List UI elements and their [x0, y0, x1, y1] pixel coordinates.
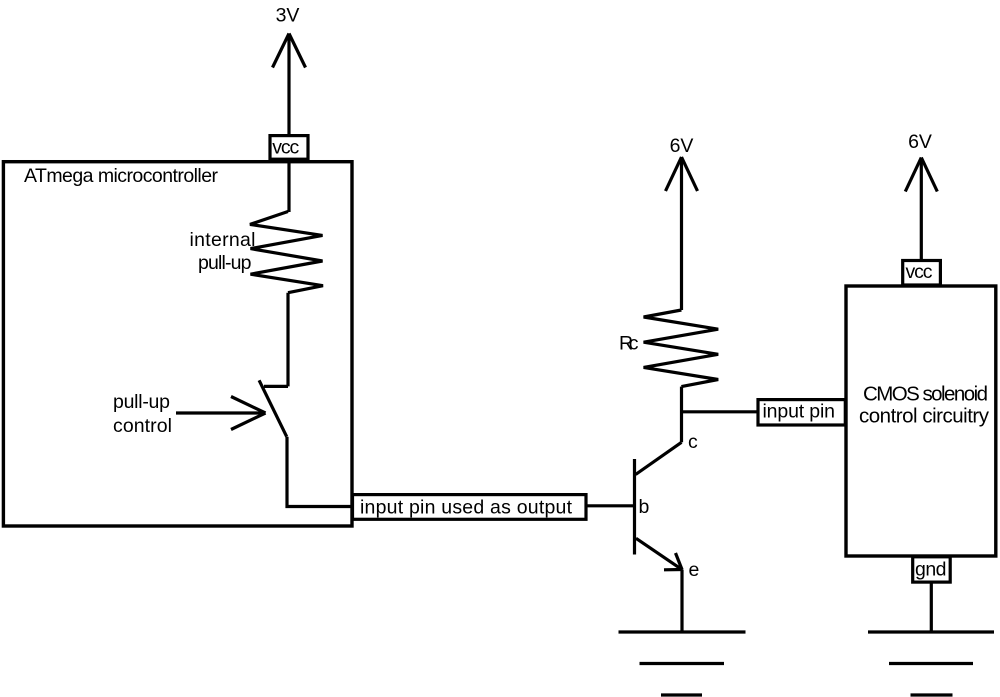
svg-text:vcc: vcc	[906, 261, 933, 283]
wire node to input pin of CMOS	[682, 410, 759, 413]
svg-text:e: e	[689, 559, 700, 581]
svg-text:pull-up: pull-up	[113, 391, 170, 413]
svg-text:control: control	[113, 415, 172, 437]
wire emitter to ground	[680, 570, 683, 633]
svg-text:b: b	[639, 496, 650, 518]
pull-up control label	[113, 391, 172, 437]
pin box vcc (ATmega)	[270, 136, 308, 160]
wire resistor to switch	[286, 293, 289, 387]
svg-text:control circuitry: control circuitry	[859, 404, 990, 427]
resistor internal pull-up	[250, 212, 323, 293]
pin box input pin used as output	[353, 495, 587, 520]
wire vcc to pull-up resistor	[287, 159, 290, 212]
pin box input pin	[758, 400, 845, 425]
power arrow 3V	[273, 34, 306, 137]
wire input pin to transistor base	[586, 504, 633, 507]
power arrow 6V (right)	[905, 158, 937, 261]
wire gnd to ground	[930, 582, 933, 632]
svg-text:vcc: vcc	[272, 137, 299, 159]
resistor Rc	[644, 310, 719, 387]
ATmega microcontroller box	[3, 162, 352, 526]
svg-text:6V: 6V	[670, 135, 694, 157]
svg-text:gnd: gnd	[915, 559, 947, 581]
transistor Q1	[635, 442, 683, 570]
CMOS solenoid control circuitry box	[846, 286, 996, 556]
svg-text:input pin used as output: input pin used as output	[360, 497, 573, 519]
pin box gnd	[913, 557, 951, 582]
wire switch to input pin	[287, 437, 352, 507]
pin box vcc (CMOS)	[903, 261, 941, 286]
svg-text:input pin: input pin	[763, 401, 836, 423]
svg-text:c: c	[688, 431, 698, 453]
ground (transistor emitter)	[619, 632, 746, 695]
power arrow 6V (middle)	[666, 157, 698, 310]
svg-text:pull-up: pull-up	[198, 252, 252, 274]
CMOS solenoid control circuitry label	[859, 383, 990, 428]
svg-text:CMOS solenoid: CMOS solenoid	[863, 383, 988, 406]
svg-text:ATmega microcontroller: ATmega microcontroller	[24, 165, 219, 187]
internal pull-up label	[190, 229, 256, 274]
svg-text:Rc: Rc	[619, 333, 639, 355]
switch (pull-up control)	[259, 380, 288, 436]
svg-text:6V: 6V	[908, 131, 932, 153]
svg-text:3V: 3V	[276, 5, 300, 27]
ground (CMOS)	[868, 632, 994, 695]
svg-text:internal: internal	[190, 229, 256, 251]
wire collector to Rc and node	[680, 387, 683, 443]
arrow pull-up control	[176, 397, 266, 430]
